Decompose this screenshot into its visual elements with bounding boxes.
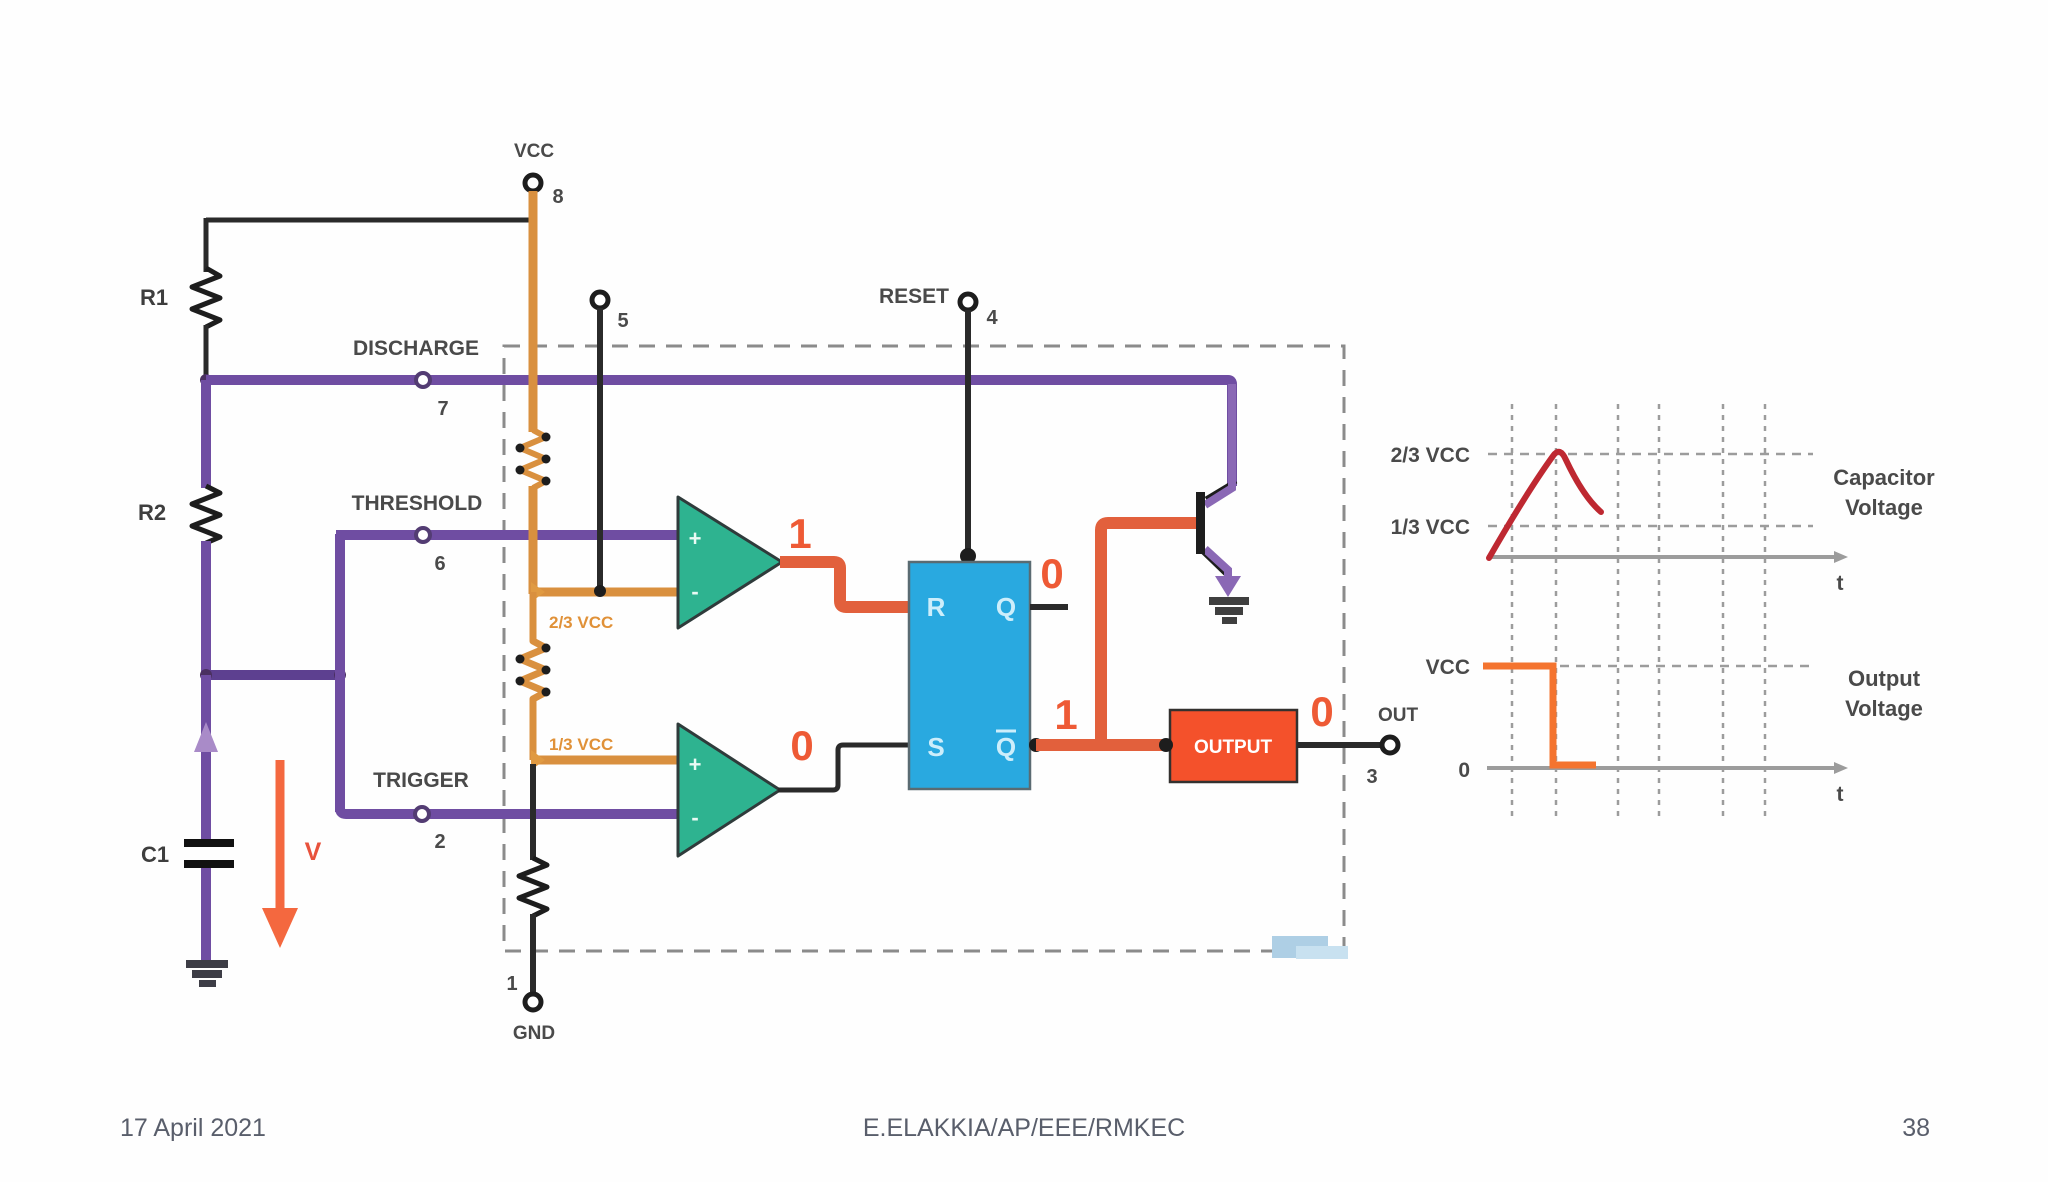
capacitor voltage curve [1489, 452, 1601, 558]
svg-text:Output: Output [1848, 666, 1921, 691]
wire: OUTPUT to pin 3 [1297, 688, 1382, 745]
svg-text:Q: Q [996, 592, 1016, 622]
node 2/3 VCC + wire to comparator minus [531, 582, 678, 632]
watermark smudge bottom-right of dashed box [1272, 936, 1348, 959]
svg-text:Capacitor: Capacitor [1833, 465, 1935, 490]
graph gridlines (vertical dashed) [1512, 404, 1765, 816]
svg-text:2/3 VCC: 2/3 VCC [549, 613, 613, 632]
svg-text:E.ELAKKIA/AP/EEE/RMKEC: E.ELAKKIA/AP/EEE/RMKEC [863, 1114, 1185, 1142]
wire: comparator U1 output (logic 1, orange) [780, 510, 911, 607]
wire: orange rail to 2/3 node [529, 486, 538, 594]
wire: TRIGGER purple horizontal [340, 808, 678, 814]
2/3 VCC dashed level [1391, 444, 1813, 467]
svg-text:VCC: VCC [1426, 656, 1470, 679]
arrow V (capacitor voltage direction) [262, 760, 322, 948]
node A left [200, 669, 212, 681]
graph 1: capacitor voltage axis [1487, 551, 1848, 595]
svg-text:Q: Q [996, 732, 1016, 762]
wire: THRESHOLD purple horizontal [336, 530, 678, 540]
op-amp comparator U1 (threshold) [678, 497, 782, 628]
wire: transistor emitter arrow (purple) down [1215, 576, 1241, 597]
wire: DISCHARGE purple horizontal [206, 380, 1232, 486]
resistor R1 [140, 268, 220, 327]
pin 5 control [592, 292, 629, 597]
svg-text:t: t [1837, 572, 1844, 595]
svg-text:TRIGGER: TRIGGER [373, 769, 469, 792]
wire: VCC top horizontal black [206, 218, 533, 223]
wire: Qbar to OUTPUT (logic 1, orange) [1036, 691, 1170, 745]
pin 6 THRESHOLD [352, 492, 483, 575]
transistor Q1 (discharge) [1196, 384, 1236, 582]
VCC pin 8 [514, 141, 564, 208]
output voltage step waveform [1483, 666, 1596, 765]
svg-text:2: 2 [434, 831, 445, 853]
wire: black from 1/3 node down [530, 764, 536, 860]
op-amp comparator U2 (trigger) [678, 724, 780, 856]
graph 2: output voltage axis [1487, 762, 1848, 806]
wire: purple vertical node to C1 [201, 675, 211, 840]
svg-text:RESET: RESET [879, 285, 949, 308]
wire: purple vertical threshold/trigger rail [335, 534, 345, 812]
svg-text:DISCHARGE: DISCHARGE [353, 337, 479, 360]
resistor divider RB (orange) [516, 592, 551, 760]
svg-text:0: 0 [1040, 550, 1063, 597]
wire: black to GND pin [530, 914, 536, 994]
wire: Q output stub (logic 0) [1030, 550, 1068, 607]
svg-text:-: - [691, 805, 698, 830]
svg-text:+: + [689, 526, 702, 551]
svg-text:1: 1 [788, 510, 811, 557]
svg-text:3: 3 [1366, 766, 1377, 788]
wire: comparator U2 output (logic 0, black) [778, 722, 911, 790]
node B right [334, 669, 346, 681]
svg-text:2/3 VCC: 2/3 VCC [1391, 444, 1470, 467]
ground under C1 [186, 960, 228, 987]
svg-text:1/3 VCC: 1/3 VCC [549, 735, 613, 754]
svg-text:5: 5 [617, 310, 628, 332]
1/3 VCC dashed level [1391, 516, 1813, 539]
ground under transistor [1209, 597, 1249, 624]
wire: orange branch up to transistor base [1101, 523, 1197, 750]
wire: R1 to discharge node [204, 325, 209, 380]
svg-text:R2: R2 [138, 500, 166, 525]
node: OUTPUT input dot [1159, 738, 1173, 752]
svg-text:VCC: VCC [514, 141, 554, 162]
svg-text:17 April 2021: 17 April 2021 [120, 1114, 266, 1142]
VCC dashed level [1426, 656, 1813, 679]
svg-text:THRESHOLD: THRESHOLD [352, 492, 483, 515]
label: Capacitor Voltage [1833, 465, 1935, 520]
svg-text:7: 7 [437, 398, 448, 420]
zero label [1458, 759, 1470, 782]
pin 1 GND [506, 973, 555, 1044]
wire: purple vertical discharge node down to R2 [201, 380, 211, 488]
IC dashed boundary box [504, 346, 1344, 951]
svg-text:1: 1 [1054, 691, 1077, 738]
svg-text:6: 6 [434, 553, 445, 575]
footer center [863, 1114, 1185, 1142]
svg-text:Voltage: Voltage [1845, 495, 1923, 520]
current direction arrow up (light purple) [194, 722, 218, 752]
svg-text:S: S [927, 732, 944, 762]
svg-text:t: t [1837, 783, 1844, 806]
svg-text:4: 4 [986, 307, 998, 329]
wire: reset vertical black [960, 310, 976, 564]
wire: orange VCC rail upper [529, 191, 538, 432]
svg-text:+: + [689, 752, 702, 777]
svg-text:R: R [927, 592, 946, 622]
svg-text:0: 0 [1310, 688, 1333, 735]
wire: black vertical to R1 [204, 218, 209, 272]
OUTPUT buffer block [1170, 710, 1297, 782]
svg-text:R1: R1 [140, 285, 168, 310]
resistor divider RC (black) [519, 858, 547, 916]
pin 7 DISCHARGE [353, 337, 479, 420]
resistor divider RA (orange) [516, 430, 551, 488]
resistor R2 [138, 486, 220, 543]
wire: purple C1 to ground [201, 868, 211, 962]
svg-text:V: V [305, 838, 322, 866]
wire: purple horizontal link at node [206, 670, 340, 680]
pin 3 OUT [1366, 705, 1418, 788]
wire: purple vertical R2 to lower junction [201, 541, 211, 675]
pin 2 TRIGGER [373, 769, 469, 853]
node: Qbar output dot [1029, 738, 1043, 752]
svg-text:Voltage: Voltage [1845, 696, 1923, 721]
svg-text:C1: C1 [141, 842, 169, 867]
svg-text:0: 0 [790, 722, 813, 769]
svg-text:-: - [691, 579, 698, 604]
svg-text:1/3 VCC: 1/3 VCC [1391, 516, 1470, 539]
svg-text:1: 1 [506, 973, 517, 995]
svg-text:OUT: OUT [1378, 705, 1419, 726]
footer date [120, 1114, 266, 1142]
label: Output Voltage [1845, 666, 1923, 721]
flip-flop U3 (RS latch) [909, 562, 1030, 789]
svg-text:GND: GND [513, 1023, 555, 1044]
svg-text:0: 0 [1458, 759, 1470, 782]
capacitor C1 [141, 839, 234, 868]
pin 4 RESET [879, 285, 998, 329]
footer page number [1902, 1114, 1930, 1142]
svg-text:38: 38 [1902, 1114, 1930, 1142]
svg-text:OUTPUT: OUTPUT [1194, 737, 1273, 758]
node: discharge junction [200, 374, 212, 386]
node 1/3 VCC + wire to comparator plus [531, 735, 678, 770]
svg-text:8: 8 [552, 186, 563, 208]
